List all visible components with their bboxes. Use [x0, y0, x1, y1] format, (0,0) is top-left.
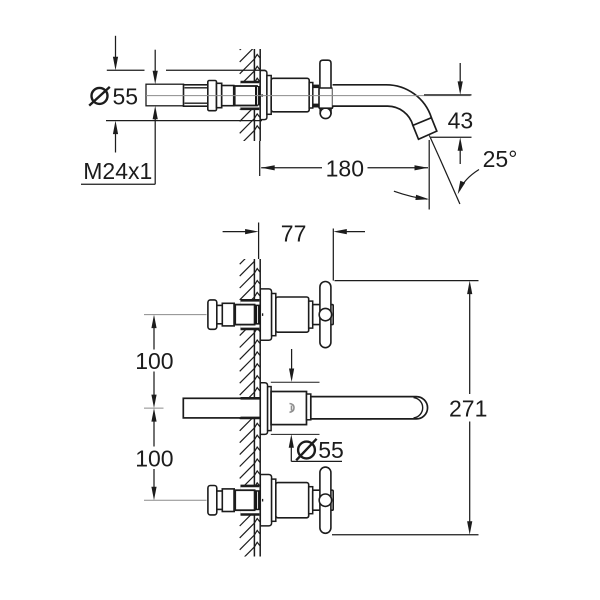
svg-text:M24x1: M24x1	[83, 158, 152, 184]
svg-text:271: 271	[449, 395, 487, 421]
angle 25 deg	[440, 159, 460, 204]
valve inner block	[234, 86, 257, 106]
upper valve + cross handle	[239, 300, 261, 329]
dimension D55 (bottom)	[271, 381, 320, 383]
centerline (top view axis)	[146, 95, 471, 97]
handle hub	[313, 305, 334, 325]
dark seal at wall	[255, 86, 260, 106]
rosette step	[272, 294, 276, 336]
dimension 100 upper	[153, 328, 155, 350]
spout supply pipe (bottom view)	[239, 398, 261, 418]
centerline	[144, 499, 207, 501]
handle cross bar (front view)	[320, 282, 331, 348]
valve flange	[208, 81, 217, 111]
spout rosette (bottom view)	[260, 383, 267, 435]
dimension 271	[335, 280, 479, 282]
body end ring	[309, 83, 313, 109]
handle hub	[313, 490, 334, 510]
spout tube with curve	[333, 85, 432, 126]
rosette step	[272, 479, 276, 521]
spout rosette step	[268, 387, 272, 431]
svg-text:77: 77	[281, 221, 307, 247]
handle cross bar up (top view)	[320, 60, 331, 88]
rosette	[260, 289, 271, 340]
rosette	[260, 475, 271, 526]
spout outlet band	[413, 118, 437, 140]
lower valve + cross handle	[239, 486, 261, 515]
dark seal	[255, 305, 260, 325]
handle cross bar (front view)	[320, 467, 331, 533]
GROHE logo mark	[290, 404, 295, 413]
svg-text:100: 100	[135, 446, 173, 472]
spout tube ring	[307, 394, 311, 420]
threaded connector M24x1	[184, 85, 208, 106]
handle hub (top view)	[319, 88, 333, 108]
valve section	[217, 83, 222, 107]
valve cylinder	[222, 303, 234, 326]
spout base block	[271, 392, 306, 425]
svg-text:43: 43	[448, 108, 474, 134]
dimension 77	[258, 223, 260, 260]
valve inner block	[234, 305, 254, 325]
dimension 180	[259, 141, 261, 176]
body ring	[309, 301, 313, 328]
front spoke circle	[319, 308, 331, 320]
escutcheon rosette (top view)	[260, 71, 267, 120]
white clip where valve passes wall	[239, 82, 261, 109]
dimension D55 (top)	[107, 69, 145, 71]
rosette step	[267, 76, 271, 115]
mounting sleeve through wall	[241, 82, 260, 109]
svg-text:25°: 25°	[483, 146, 518, 172]
svg-text:100: 100	[135, 348, 173, 374]
valve end cap	[208, 486, 217, 515]
body ring	[309, 487, 313, 514]
svg-text:55: 55	[113, 83, 139, 109]
valve cylinder	[222, 489, 234, 512]
supply pipe stub	[146, 84, 184, 106]
spout tube (bottom view)	[311, 397, 428, 419]
valve front body	[276, 483, 309, 518]
dimension 100 lower	[153, 421, 155, 447]
svg-text:180: 180	[326, 155, 364, 181]
handle down spoke cylinder	[320, 107, 331, 113]
valve neck	[217, 491, 223, 509]
dimension 43	[424, 94, 472, 96]
valve neck	[217, 305, 223, 323]
spout body cylinder	[271, 78, 309, 112]
dimension M24x1	[154, 50, 156, 71]
handle stem stubs	[313, 85, 319, 89]
valve inner block	[234, 490, 254, 510]
dark seal	[255, 490, 260, 510]
valve end cap	[208, 300, 217, 329]
centerline	[144, 314, 207, 316]
front spoke circle	[319, 494, 331, 506]
valve narrow section	[222, 86, 234, 106]
svg-text:55: 55	[318, 437, 344, 463]
valve front body	[276, 297, 309, 332]
